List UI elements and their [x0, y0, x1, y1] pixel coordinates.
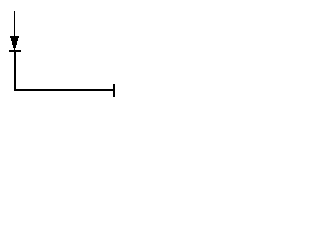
wire (vertical lead into arrow)	[14, 11, 15, 36]
wire (vertical leg)	[14, 52, 16, 89]
crossbar (surface tick under arrow)	[9, 50, 21, 52]
terminal tick (right end)	[113, 84, 115, 97]
wire (horizontal run)	[14, 89, 115, 91]
arrowhead (down, stepped solid)	[10, 36, 19, 50]
